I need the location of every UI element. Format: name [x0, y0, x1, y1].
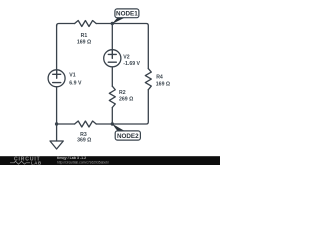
- wire node1 junction down to V2: [111, 24, 113, 50]
- wire V1 to bottom junction: [56, 87, 58, 124]
- R3 designator and value labels: [77, 132, 91, 144]
- svg-text:-1.69 V: -1.69 V: [123, 61, 140, 67]
- svg-text:R1: R1: [81, 33, 88, 39]
- wire R4 to bottom-right corner: [112, 90, 148, 124]
- svg-text:369 Ω: 369 Ω: [77, 138, 91, 144]
- wire left rail to V1: [56, 25, 58, 70]
- junction dot at V1/R3/ground: [55, 122, 58, 125]
- node NODE2 pointer: [112, 124, 125, 131]
- resistor R2: [109, 86, 115, 107]
- svg-text:V2: V2: [123, 54, 129, 60]
- svg-text:169 Ω: 169 Ω: [77, 40, 91, 46]
- resistor R4: [145, 69, 151, 90]
- svg-text:6.9 V: 6.9 V: [69, 80, 82, 86]
- resistor R1: [75, 21, 97, 27]
- R1 designator and value labels: [77, 33, 91, 46]
- svg-text:NODE1: NODE1: [116, 11, 138, 18]
- footer credit text: [57, 156, 109, 164]
- svg-text:http://circuitlab.com/c7s62935: http://circuitlab.com/c7s62935abeb/: [57, 160, 109, 164]
- svg-text:169 Ω: 169 Ω: [156, 81, 170, 87]
- wire R1 to top-right corner: [96, 24, 148, 69]
- wire R3 to node2 junction: [96, 123, 112, 125]
- svg-text:V1: V1: [69, 73, 75, 79]
- node NODE2 label box: [115, 131, 140, 140]
- wire top-left corner to R1: [57, 24, 75, 27]
- voltage source V1: [48, 70, 65, 87]
- wire V2 to R2: [111, 67, 113, 86]
- node NODE1 label box: [115, 9, 139, 18]
- V1 designator and value labels: [69, 73, 82, 87]
- voltage source V2: [104, 50, 121, 67]
- junction dot NODE1: [111, 22, 114, 25]
- svg-text:269 Ω: 269 Ω: [119, 97, 133, 103]
- junction dot NODE2: [111, 122, 114, 125]
- wire R2 to node2 junction: [111, 108, 113, 125]
- V2 designator and value labels: [123, 54, 140, 67]
- CircuitLab logo: [10, 156, 42, 165]
- svg-text:LAB: LAB: [31, 160, 42, 165]
- svg-text:R4: R4: [156, 75, 163, 81]
- R4 designator and value labels: [156, 75, 170, 88]
- wire ground stem: [56, 124, 58, 141]
- svg-text:R2: R2: [119, 90, 126, 96]
- svg-text:NODE2: NODE2: [117, 133, 139, 140]
- footer bar: [0, 156, 220, 165]
- R2 designator and value labels: [119, 90, 133, 103]
- wire junction to R3: [57, 123, 75, 125]
- node NODE1 pointer: [112, 18, 125, 24]
- ground: [50, 141, 63, 149]
- resistor R3: [75, 121, 97, 127]
